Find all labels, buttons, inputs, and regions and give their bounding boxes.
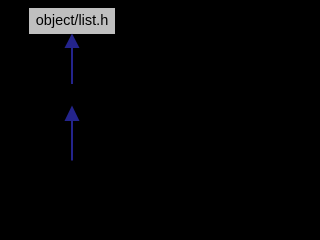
wire edge1 shaft bbox=[71, 46, 73, 84]
wire edge2 shaft bbox=[71, 119, 73, 161]
wire edge1 arrowhead bbox=[65, 34, 80, 49]
node object/list.h bbox=[28, 7, 116, 35]
wire edge2 arrowhead bbox=[65, 106, 80, 122]
